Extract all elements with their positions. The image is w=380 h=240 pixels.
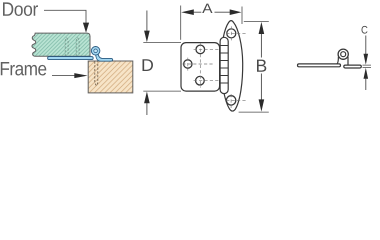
door screw 1 (hidden lines) <box>65 38 79 56</box>
frame leader line <box>52 75 75 77</box>
hinge right leaf (on frame) <box>96 53 113 62</box>
door screw 2 (hidden lines) <box>76 38 79 56</box>
dim D extension top <box>143 42 181 44</box>
dim D label <box>143 59 153 71</box>
knuckle segment lines <box>220 46 228 84</box>
dim C label <box>362 26 368 34</box>
frame screw (hidden lines) <box>95 62 98 86</box>
dim A extension line right <box>241 7 243 25</box>
door leader arrowhead <box>83 23 89 33</box>
strap hole bottom <box>226 96 235 105</box>
barrel loop <box>338 49 348 59</box>
hinge barrel (side illustration) <box>91 47 100 56</box>
dim D line + outside arrows <box>146 11 148 31</box>
dim A extension line left <box>180 6 182 40</box>
centerlines (dashed) <box>182 26 246 109</box>
short leaf (right) <box>344 65 362 68</box>
loop neck right <box>347 57 349 66</box>
barrel knuckle column <box>220 37 228 93</box>
frame leader arrowhead <box>74 73 87 78</box>
dim B extension top <box>244 20 269 22</box>
long leaf (left) <box>298 64 341 67</box>
dim A label <box>202 4 212 13</box>
dim B label <box>257 60 266 72</box>
door (teal hatched section) <box>32 33 90 56</box>
loop neck left <box>337 57 339 64</box>
frame (tan hatched section) <box>88 61 133 93</box>
dim C line + outside arrows <box>365 36 367 55</box>
dim D extension bottom <box>143 90 181 92</box>
dim A line + arrows <box>194 11 230 13</box>
door leader line <box>44 10 86 23</box>
dim B extension bottom <box>239 111 269 113</box>
strap hole top <box>227 29 236 38</box>
hinge left leaf (under door) <box>48 57 94 60</box>
strap leaf (vertical lens, behind barrel) <box>221 21 243 111</box>
plate hole bottom <box>196 76 205 85</box>
plate hole top <box>196 45 205 54</box>
dim B line + arrows <box>260 34 262 100</box>
frame label text <box>1 62 47 75</box>
door label text <box>3 2 38 16</box>
dim C extension lines <box>363 65 372 67</box>
plate hole left <box>184 60 192 68</box>
mounting plate <box>181 43 220 92</box>
